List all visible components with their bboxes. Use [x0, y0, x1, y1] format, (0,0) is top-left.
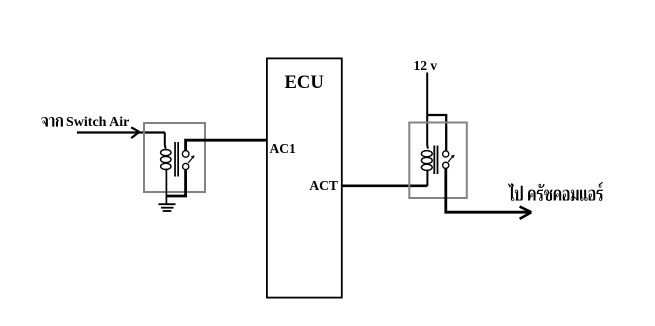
ground symbol — [159, 204, 176, 211]
wire: K2 switch bottom to compressor clutch arrow — [446, 169, 532, 219]
relay K1 movable contact arrow — [188, 155, 195, 163]
relay K2 coil L2 — [421, 151, 432, 171]
wire: 12v branch to K2 switch top — [427, 115, 446, 151]
relay K1 core — [174, 142, 179, 177]
relay K2 switch contacts — [443, 151, 449, 169]
wire: ECU ACT to relay K2 coil — [341, 185, 427, 188]
node: output label "ไป ครัชคอมแอร์" (to A/C compressor clutch) — [508, 182, 603, 201]
svg-text:12 v: 12 v — [414, 58, 438, 73]
wire: K1 switch top to ECU AC1 — [186, 140, 267, 151]
relay K1 enclosure (gray box) — [144, 123, 205, 192]
wire: input arrow from Switch Air — [77, 127, 165, 138]
node: input label "จาก Switch Air" — [41, 115, 129, 130]
ECU box U1 — [267, 58, 342, 297]
svg-text:Switch Air: Switch Air — [66, 115, 129, 130]
wire: 12v supply down to K2 coil top — [427, 73, 428, 149]
relay K2 core — [433, 146, 438, 175]
wire: K1 coil bottom down to ground — [165, 169, 167, 205]
relay K1 coil L1 — [161, 150, 171, 170]
wire: K1 switch bottom to ground — [167, 170, 186, 196]
svg-text:ACT: ACT — [309, 178, 338, 193]
wire: into relay K1 coil top — [165, 133, 166, 149]
relay K1 switch contacts — [182, 151, 189, 170]
svg-text:ECU: ECU — [285, 72, 324, 93]
wire: K2 coil bottom to ACT wire — [426, 170, 428, 186]
relay K2 enclosure (gray box) — [409, 123, 467, 199]
relay K2 movable contact arrow — [448, 155, 455, 162]
svg-text:AC1: AC1 — [270, 141, 296, 156]
